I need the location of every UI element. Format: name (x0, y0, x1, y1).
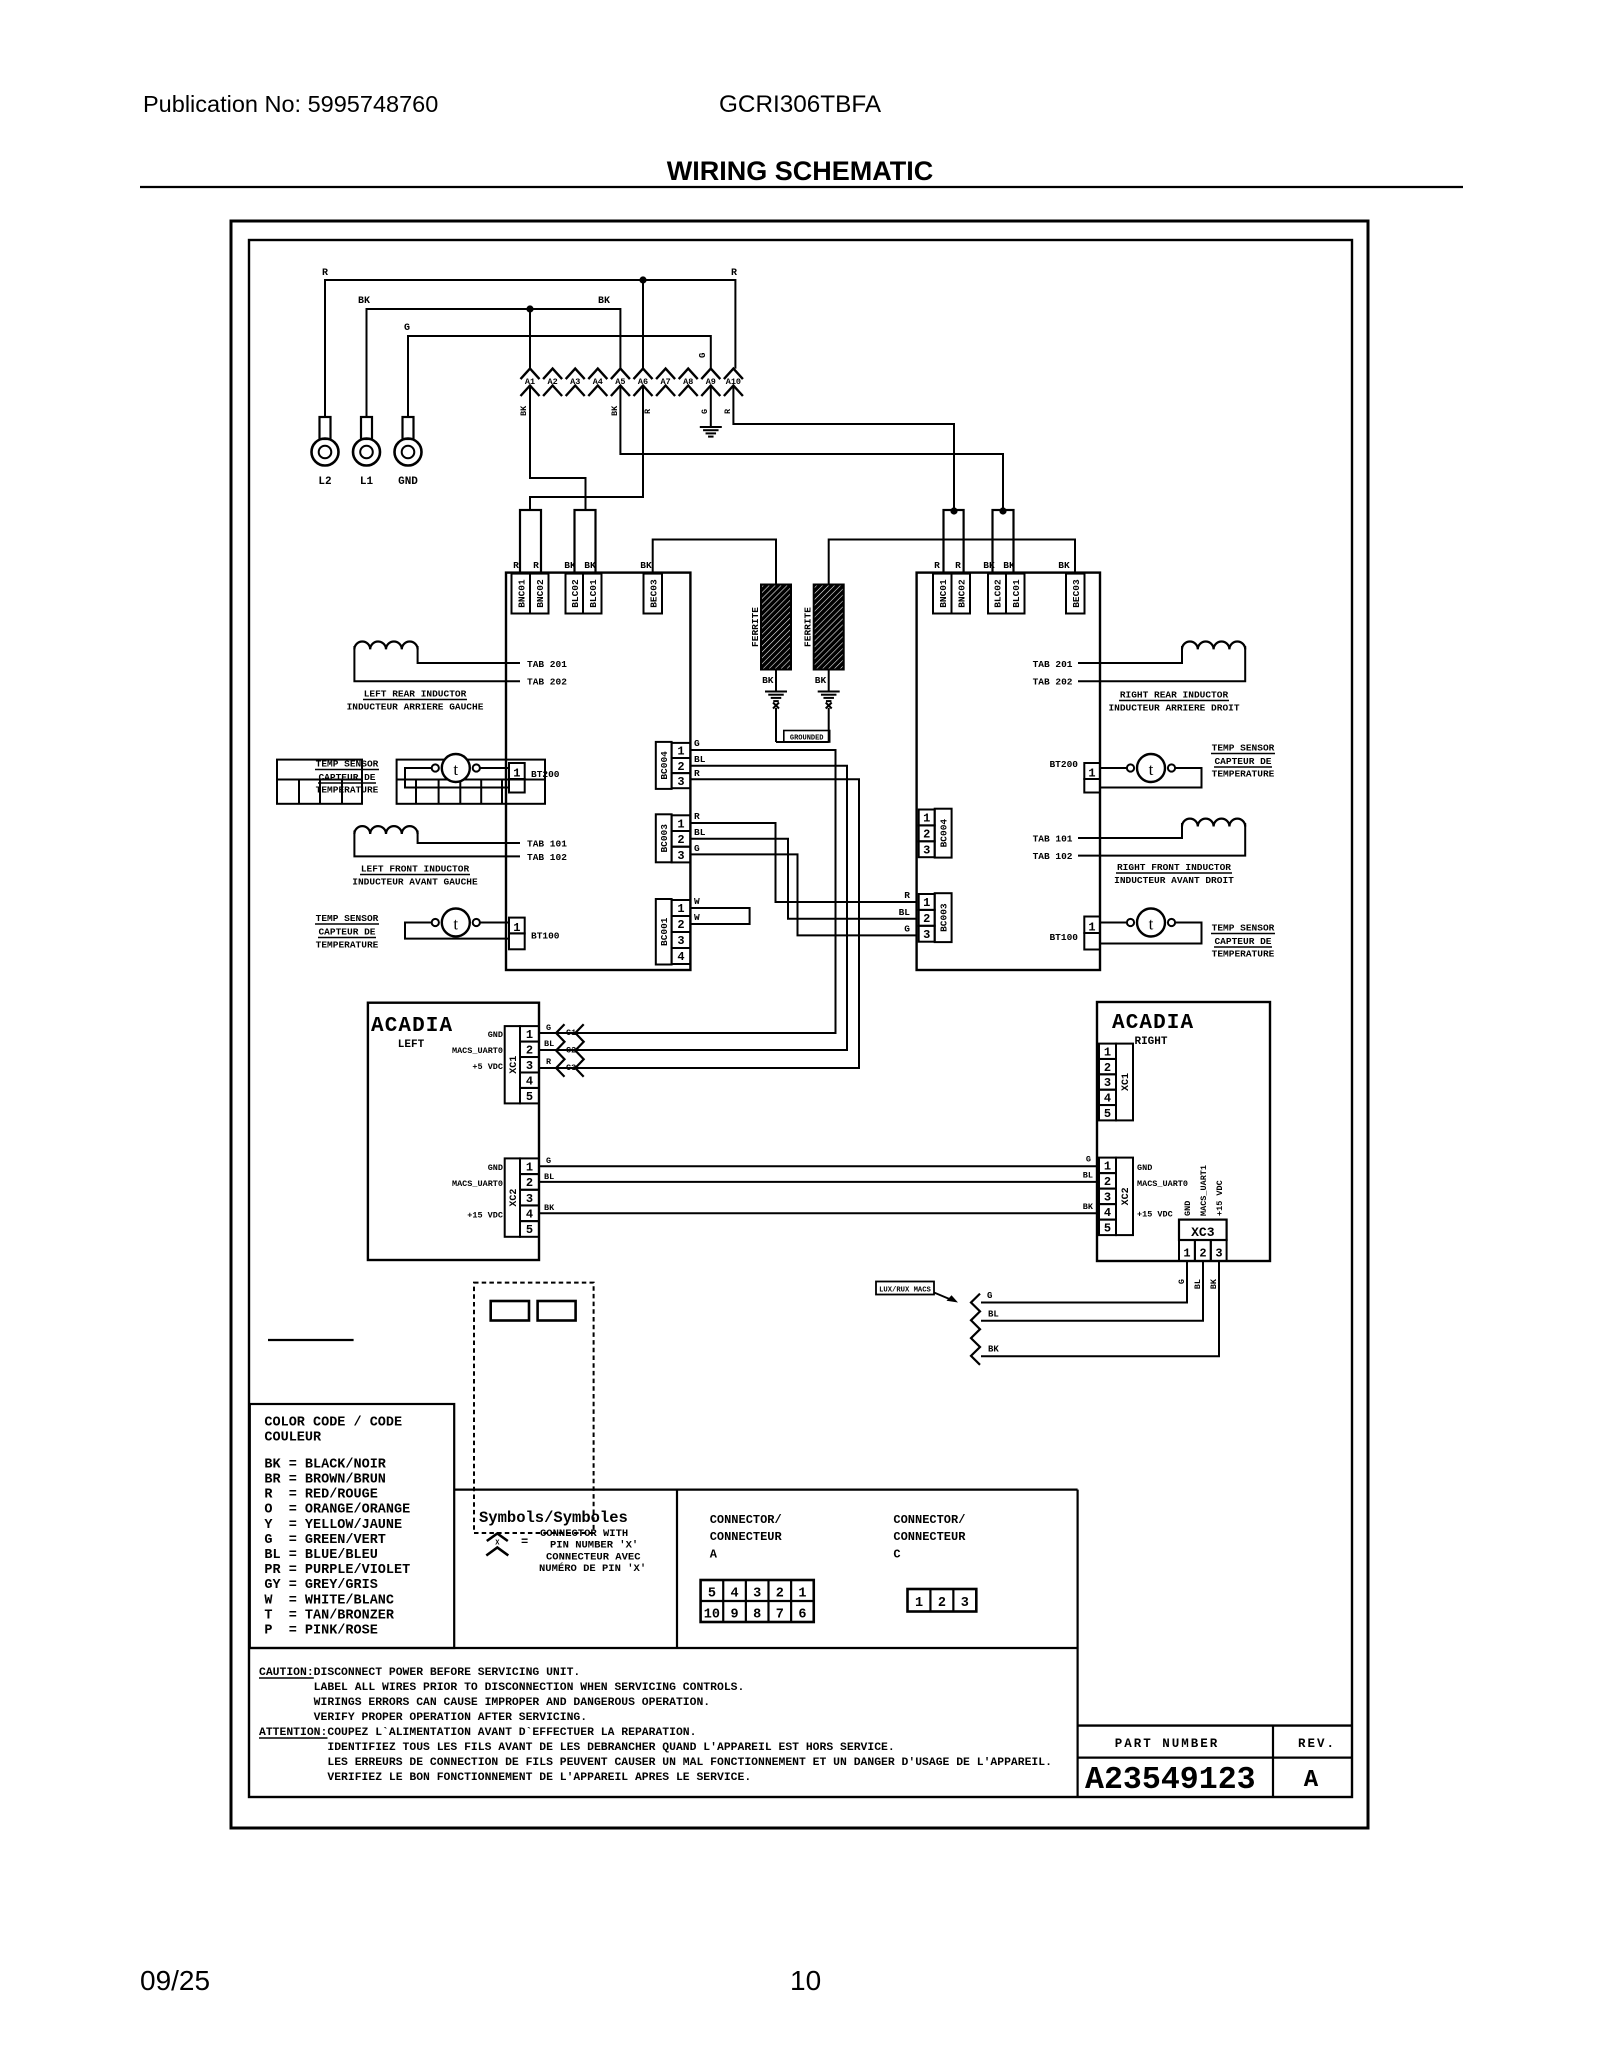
svg-text:3: 3 (923, 843, 930, 857)
svg-text:3: 3 (677, 849, 684, 863)
connector A2 (543, 369, 562, 380)
connector BLC02 (right box) (988, 574, 1006, 614)
ferrite 1 bead (761, 585, 791, 670)
connector pin box BT200 (right) (1084, 763, 1100, 779)
svg-text:+15 VDC: +15 VDC (467, 1211, 503, 1221)
svg-text:=: = (521, 1535, 528, 1549)
svg-text:BC004: BC004 (939, 819, 950, 848)
svg-text:LEFT: LEFT (398, 1039, 425, 1051)
svg-text:TAB 202: TAB 202 (527, 677, 567, 688)
svg-text:TEMPERATURE: TEMPERATURE (1212, 769, 1275, 780)
connector BNC02 (right box) (952, 574, 971, 614)
svg-text:2: 2 (677, 918, 684, 932)
svg-text:TAB 101: TAB 101 (1033, 834, 1073, 845)
svg-text:4: 4 (1104, 1206, 1111, 1220)
wire BK XC3-3 to LUX chevron (981, 1261, 1219, 1356)
svg-text:4: 4 (730, 1587, 738, 1602)
svg-text:TAB 201: TAB 201 (1033, 659, 1073, 670)
ground wire below A9 (710, 386, 712, 427)
wire BK from BEC03 to ferrite 1 (653, 540, 776, 585)
svg-text:BL: BL (694, 754, 706, 765)
svg-text:R: R (955, 560, 961, 571)
connector A pin grid (701, 1580, 814, 1622)
LUX/RUX MACS arrow (934, 1293, 953, 1301)
connector pin box BT100 (left) (509, 918, 525, 934)
connector BC004 (right box) (919, 810, 935, 826)
ferrite 1 ground symbol (765, 691, 787, 693)
svg-text:GND: GND (1137, 1163, 1152, 1173)
svg-text:TEMP SENSOR: TEMP SENSOR (1212, 923, 1275, 934)
connector XC2 (ACADIA right) (1099, 1158, 1116, 1174)
svg-text:1: 1 (677, 902, 684, 916)
svg-text:GY = GREY/GRIS: GY = GREY/GRIS (264, 1578, 377, 1593)
temp sensor BT100 (left) (442, 909, 470, 937)
svg-text:BT200: BT200 (531, 769, 560, 780)
svg-text:MACS_UART0: MACS_UART0 (452, 1179, 503, 1189)
dashed outline box (474, 1283, 594, 1533)
svg-text:3: 3 (526, 1059, 533, 1073)
svg-text:1: 1 (1104, 1160, 1111, 1174)
ground symbol at A9 (700, 426, 722, 428)
svg-text:R: R (723, 408, 733, 414)
svg-text:4: 4 (677, 950, 684, 964)
svg-text:FERRITE: FERRITE (803, 607, 814, 647)
wire R below A10 to right box (733, 386, 954, 512)
terminal grid left of BT200 (277, 760, 362, 804)
wire BK XC2-4 to right XC2-4 (539, 1212, 1099, 1214)
svg-text:G = GREEN/VERT: G = GREEN/VERT (264, 1533, 386, 1548)
wire BL BC003-2 to right BC003-2 (690, 839, 916, 919)
svg-text:COLOR CODE / CODE: COLOR CODE / CODE (264, 1416, 402, 1431)
connector A3 (566, 369, 585, 380)
ferrite 1 break mark (773, 703, 779, 709)
wire TAB 202 (left rear) (354, 646, 520, 681)
svg-text:G: G (694, 843, 700, 854)
svg-text:INDUCTEUR AVANT DROIT: INDUCTEUR AVANT DROIT (1114, 875, 1234, 886)
left rear inductor coil (354, 642, 417, 650)
svg-text:10: 10 (704, 1608, 720, 1623)
svg-text:3: 3 (1104, 1076, 1111, 1090)
connector pin box BT200 (left) (509, 763, 525, 779)
svg-text:FERRITE: FERRITE (750, 607, 761, 647)
wire BK below A1 (530, 386, 586, 511)
stray underline segment left margin (268, 1339, 354, 1341)
svg-text:BK: BK (598, 296, 610, 307)
left front inductor coil (354, 826, 417, 834)
connector XC2 (ACADIA left) (505, 1158, 520, 1236)
svg-text:3: 3 (677, 934, 684, 948)
svg-text:VERIFY PROPER OPERATION AFTER: VERIFY PROPER OPERATION AFTER SERVICING. (259, 1712, 587, 1724)
grounded link wire (776, 741, 829, 743)
ACADIA LEFT module box (368, 1003, 539, 1260)
svg-text:REV.: REV. (1298, 1737, 1336, 1751)
svg-text:+15 VDC: +15 VDC (1137, 1210, 1173, 1220)
svg-text:BEC03: BEC03 (648, 579, 659, 608)
svg-text:+5 VDC: +5 VDC (472, 1062, 503, 1072)
svg-text:IDENTIFIEZ TOUS LES FILS AVANT: IDENTIFIEZ TOUS LES FILS AVANT DE LES DE… (259, 1742, 895, 1754)
svg-text:R: R (694, 811, 700, 822)
svg-text:A: A (1304, 1767, 1319, 1794)
connector BC003 (left box) (656, 814, 672, 862)
svg-text:RIGHT: RIGHT (1134, 1036, 1167, 1048)
wire G XC2-1 to right XC2-1 (539, 1165, 1099, 1167)
svg-text:PART NUMBER: PART NUMBER (1115, 1737, 1220, 1751)
svg-text:CONNECTOR/: CONNECTOR/ (710, 1513, 782, 1527)
LUX/RUX MACS label box (876, 1282, 934, 1295)
svg-text:2: 2 (526, 1043, 533, 1057)
wire BL BC004-2 to XC1-2 via C2 (539, 766, 847, 1050)
svg-text:1: 1 (677, 745, 684, 759)
svg-text:BL: BL (544, 1039, 554, 1049)
svg-text:BK: BK (610, 405, 620, 416)
svg-text:10: 10 (790, 1965, 821, 1996)
svg-text:R: R (322, 268, 328, 279)
svg-text:t: t (1149, 760, 1154, 779)
svg-text:2: 2 (1199, 1247, 1206, 1261)
svg-text:BNC02: BNC02 (535, 579, 546, 608)
svg-text:W = WHITE/BLANC: W = WHITE/BLANC (264, 1593, 394, 1608)
connector BC001 (left box) (656, 899, 672, 965)
wire BK branch A1 drop (529, 309, 531, 369)
svg-text:7: 7 (776, 1608, 784, 1623)
wire BT100 right pin to pin 1 (480, 922, 509, 924)
svg-text:BT100: BT100 (1049, 932, 1078, 943)
legend band borders (454, 1488, 1077, 1490)
wire TAB 201 (left rear) (418, 646, 520, 663)
svg-text:INDUCTEUR AVANT GAUCHE: INDUCTEUR AVANT GAUCHE (352, 877, 478, 888)
svg-text:CONNECTOR WITH: CONNECTOR WITH (540, 1528, 628, 1540)
svg-text:BK: BK (640, 560, 652, 571)
svg-text:BK: BK (983, 560, 995, 571)
svg-text:TAB 201: TAB 201 (527, 659, 567, 670)
wire G from GND to A9 (408, 336, 711, 417)
svg-text:TAB 101: TAB 101 (527, 839, 567, 850)
wire R from L2 to A10 (top red bus) (325, 280, 735, 417)
svg-text:INDUCTEUR ARRIERE GAUCHE: INDUCTEUR ARRIERE GAUCHE (347, 702, 484, 713)
svg-text:BNC01: BNC01 (938, 579, 949, 608)
ferrite 2 ground symbol (818, 691, 840, 693)
svg-text:TAB 202: TAB 202 (1033, 677, 1073, 688)
svg-text:CAPTEUR DE: CAPTEUR DE (1214, 936, 1271, 947)
ferrite 1 wire to ground (775, 670, 777, 692)
svg-text:BK: BK (762, 675, 774, 686)
svg-text:R: R (643, 408, 653, 414)
wire G BC003-3 to right BC003-3 (690, 854, 916, 935)
small rectangle 1 in dashed box (491, 1301, 529, 1321)
connector symbols C1 C2 C3 zigzag pair (556, 1024, 564, 1077)
svg-text:GND: GND (488, 1030, 503, 1040)
svg-text:3: 3 (923, 928, 930, 942)
connector XC1 (ACADIA right) (1099, 1044, 1116, 1059)
svg-text:BK: BK (584, 560, 596, 571)
terminal grid around BT200 (397, 760, 545, 804)
svg-text:XC1: XC1 (509, 1056, 520, 1074)
svg-text:LUX/RUX MACS: LUX/RUX MACS (879, 1287, 931, 1295)
wire TAB 102 (right front) (1078, 823, 1245, 856)
svg-text:BL: BL (694, 827, 706, 838)
svg-text:R: R (533, 560, 539, 571)
ferrite 2 wire to ground (828, 670, 830, 692)
temp sensor BT200 (left) (442, 754, 470, 782)
connector BNC01 (right box) (933, 574, 952, 614)
wire TAB 101 (right front) (1078, 823, 1182, 838)
svg-text:G: G (904, 924, 910, 935)
svg-text:CAPTEUR DE: CAPTEUR DE (318, 772, 375, 783)
svg-text:BC003: BC003 (939, 903, 950, 932)
label GROUNDED box (784, 731, 830, 743)
svg-text:CONNECTEUR AVEC: CONNECTEUR AVEC (546, 1551, 641, 1563)
connector A10 (724, 369, 743, 380)
svg-text:O = ORANGE/ORANGE: O = ORANGE/ORANGE (264, 1503, 410, 1518)
svg-text:TAB 102: TAB 102 (527, 852, 567, 863)
ring terminal GND (395, 439, 422, 466)
svg-text:G: G (698, 353, 708, 358)
svg-text:1: 1 (677, 817, 684, 831)
svg-text:BLC01: BLC01 (588, 579, 599, 608)
svg-text:R: R (934, 560, 940, 571)
svg-text:TEMP SENSOR: TEMP SENSOR (316, 759, 379, 770)
svg-text:CAPTEUR DE: CAPTEUR DE (318, 927, 375, 938)
connector A8 (679, 369, 698, 380)
svg-text:MACS_UART0: MACS_UART0 (1137, 1179, 1188, 1189)
svg-text:NUMÉRO DE PIN 'X': NUMÉRO DE PIN 'X' (539, 1561, 646, 1575)
svg-text:T = TAN/BRONZER: T = TAN/BRONZER (264, 1608, 395, 1623)
svg-text:C: C (893, 1548, 900, 1562)
wire BL XC3-2 to LUX chevron (981, 1261, 1203, 1321)
svg-text:BEC03: BEC03 (1071, 579, 1082, 608)
connector XC3 (ACADIA right) (1179, 1220, 1227, 1240)
svg-text:t: t (1149, 915, 1154, 934)
svg-text:R: R (513, 560, 519, 571)
connector BNC02 (left box) (530, 574, 549, 614)
svg-text:W: W (694, 912, 700, 923)
wire BT100 right pin loop to pin 2 (right) (1100, 923, 1202, 944)
svg-text:TEMP SENSOR: TEMP SENSOR (1212, 743, 1275, 754)
svg-text:CONNECTOR/: CONNECTOR/ (893, 1513, 965, 1527)
wire TAB 202 (right rear) (1078, 646, 1245, 681)
svg-text:XC1: XC1 (1121, 1073, 1132, 1091)
svg-text:BT200: BT200 (1049, 759, 1078, 770)
svg-text:3: 3 (1104, 1191, 1111, 1205)
svg-text:Y = YELLOW/JAUNE: Y = YELLOW/JAUNE (264, 1518, 402, 1533)
underline CAUTION (259, 1677, 314, 1679)
svg-text:6: 6 (798, 1608, 806, 1623)
wire TAB 102 (left front) (354, 831, 520, 857)
svg-text:2: 2 (923, 828, 930, 842)
tab shroud above BNC01/BNC02 (right) (944, 510, 964, 573)
connector XC1 (ACADIA left) (505, 1026, 520, 1103)
svg-text:XC3: XC3 (1191, 1225, 1215, 1240)
tab shroud above BLC02/BLC01 (right) (993, 510, 1014, 573)
svg-text:BL: BL (899, 907, 911, 918)
svg-text:XC2: XC2 (1121, 1187, 1132, 1205)
svg-text:R: R (731, 268, 737, 279)
svg-text:1: 1 (798, 1587, 806, 1602)
svg-text:BL: BL (988, 1310, 999, 1320)
svg-text:BK: BK (544, 1203, 555, 1213)
svg-text:R: R (546, 1057, 552, 1067)
connector BNC01 (left box) (512, 574, 531, 614)
connector C pin grid (908, 1589, 977, 1612)
svg-text:G: G (694, 738, 700, 749)
left induction control box (506, 573, 690, 970)
svg-text:BNC01: BNC01 (516, 579, 527, 608)
junction dot R bus at A6 (639, 276, 646, 283)
ACADIA RIGHT module box (1097, 1002, 1270, 1261)
svg-text:BK = BLACK/NOIR: BK = BLACK/NOIR (264, 1457, 386, 1472)
svg-text:G: G (546, 1156, 551, 1166)
svg-text:5: 5 (526, 1090, 533, 1104)
wire BT200 left pin loop to pin 2 (405, 768, 509, 788)
right front inductor coil (1182, 819, 1245, 827)
legend connector symbol (487, 1534, 508, 1542)
svg-text:1: 1 (915, 1596, 923, 1611)
svg-text:2: 2 (677, 833, 684, 847)
svg-text:WIRING SCHEMATIC: WIRING SCHEMATIC (667, 156, 933, 186)
svg-text:TEMP SENSOR: TEMP SENSOR (316, 913, 379, 924)
connector BEC03 (left box) (644, 574, 663, 614)
svg-text:BK: BK (988, 1345, 999, 1355)
svg-text:PIN NUMBER 'X': PIN NUMBER 'X' (550, 1540, 638, 1552)
wire BT100 left pin loop to pin 2 (405, 923, 509, 939)
tab shroud above BLC02/BLC01 (left) (575, 510, 596, 573)
svg-text:G: G (546, 1023, 551, 1033)
svg-text:G: G (987, 1291, 992, 1301)
svg-text:R: R (904, 890, 910, 901)
svg-text:09/25: 09/25 (140, 1965, 210, 1996)
wire R branch A6 drop (642, 280, 644, 369)
wire BT100 left pin to pin 1 (right) (1100, 922, 1127, 924)
svg-text:BC003: BC003 (659, 824, 670, 853)
ring terminal L2 (312, 439, 339, 466)
LUX/RUX MACS zigzag connector (971, 1294, 980, 1365)
svg-text:W: W (694, 896, 700, 907)
svg-text:3: 3 (677, 775, 684, 789)
svg-text:2: 2 (938, 1596, 946, 1611)
wire BT200 left pin to pin 1 (right) (1100, 767, 1127, 769)
wire G BC004-1 to XC1-1 via C1 (539, 750, 836, 1033)
svg-text:3: 3 (753, 1587, 761, 1602)
svg-text:RIGHT FRONT INDUCTOR: RIGHT FRONT INDUCTOR (1117, 862, 1231, 873)
connector BLC01 (left box) (583, 574, 602, 614)
svg-text:BK: BK (519, 405, 529, 416)
svg-text:3: 3 (526, 1192, 533, 1206)
svg-text:TAB 102: TAB 102 (1033, 851, 1073, 862)
svg-text:C3: C3 (566, 1063, 576, 1073)
svg-text:GROUNDED: GROUNDED (790, 735, 824, 743)
svg-text:BLC01: BLC01 (1011, 579, 1022, 608)
svg-text:4: 4 (526, 1207, 533, 1221)
svg-text:1: 1 (526, 1160, 533, 1174)
svg-text:BL: BL (1193, 1279, 1203, 1289)
svg-text:LABEL ALL WIRES PRIOR TO DISCO: LABEL ALL WIRES PRIOR TO DISCONNECTION W… (259, 1682, 744, 1694)
svg-text:GND: GND (398, 476, 418, 488)
svg-text:BK: BK (564, 560, 576, 571)
svg-text:5: 5 (1104, 1107, 1111, 1121)
ferrite 2 break mark (826, 703, 832, 709)
svg-text:3: 3 (1215, 1247, 1222, 1261)
part number table (1078, 1724, 1352, 1726)
svg-text:1: 1 (923, 896, 930, 910)
svg-text:1: 1 (1104, 1045, 1111, 1059)
connector A1 (521, 369, 540, 380)
svg-text:Symbols/Symboles: Symbols/Symboles (479, 1509, 628, 1527)
svg-text:GND: GND (488, 1163, 503, 1173)
ferrite 2 wire to grounded bus (828, 708, 830, 742)
jumper wire W between BC001 pins 1-2 (690, 908, 749, 924)
svg-text:BLC02: BLC02 (570, 579, 581, 608)
junction dot on right BK shroud (999, 507, 1006, 514)
svg-text:TEMPERATURE: TEMPERATURE (1212, 949, 1275, 960)
wire R BC003-1 to right BC003-1 (690, 823, 916, 902)
svg-text:BL: BL (1083, 1171, 1093, 1181)
svg-text:BL: BL (544, 1172, 554, 1182)
svg-text:2: 2 (1104, 1061, 1111, 1075)
wire TAB 101 (left front) (418, 831, 520, 844)
wire TAB 201 (right rear) (1078, 646, 1182, 663)
svg-text:2: 2 (526, 1176, 533, 1190)
inner border frame (249, 240, 1352, 1797)
wire BT200 right pin to pin 1 (480, 767, 509, 769)
tab shroud above BNC01/BNC02 (left) (520, 510, 541, 573)
junction dot BK bus at A1 (526, 305, 533, 312)
title underline (140, 186, 1463, 188)
connector BLC02 (left box) (566, 574, 584, 614)
connector A7 (656, 369, 675, 380)
svg-text:5: 5 (708, 1587, 716, 1602)
svg-text:+15 VDC: +15 VDC (1215, 1180, 1225, 1216)
svg-text:RIGHT REAR INDUCTOR: RIGHT REAR INDUCTOR (1120, 690, 1229, 701)
svg-text:1: 1 (1183, 1247, 1190, 1261)
temp sensor BT100 (right) (1137, 909, 1165, 937)
svg-text:GND: GND (1183, 1201, 1193, 1216)
svg-text:2: 2 (1104, 1175, 1111, 1189)
svg-text:1: 1 (526, 1028, 533, 1042)
svg-text:BK: BK (1058, 560, 1070, 571)
svg-text:2: 2 (776, 1587, 784, 1602)
svg-text:t: t (453, 760, 458, 779)
underline ATTENTION (259, 1737, 328, 1739)
right induction control box (917, 573, 1100, 970)
connector BC004 (left box) (656, 742, 672, 789)
svg-text:BK: BK (358, 296, 370, 307)
svg-text:A23549123: A23549123 (1085, 1763, 1256, 1798)
svg-text:BL = BLUE/BLEU: BL = BLUE/BLEU (264, 1548, 377, 1563)
svg-text:R = RED/ROUGE: R = RED/ROUGE (264, 1488, 377, 1503)
svg-text:ACADIA: ACADIA (1112, 1012, 1194, 1035)
svg-text:9: 9 (730, 1608, 738, 1623)
svg-text:TEMPERATURE: TEMPERATURE (316, 785, 379, 796)
svg-text:2: 2 (923, 912, 930, 926)
svg-text:BK: BK (1083, 1202, 1094, 1212)
svg-text:BK: BK (1209, 1278, 1219, 1289)
color code box (250, 1404, 454, 1648)
svg-text:BC001: BC001 (659, 917, 670, 946)
junction dot on right R shroud (950, 507, 957, 514)
svg-text:5: 5 (526, 1223, 533, 1237)
svg-text:BNC02: BNC02 (956, 579, 967, 608)
svg-text:R: R (694, 768, 700, 779)
svg-text:LES ERREURS DE CONNECTION DE F: LES ERREURS DE CONNECTION DE FILS PEUVEN… (259, 1757, 1052, 1769)
svg-text:MACS_UART0: MACS_UART0 (452, 1046, 503, 1056)
connector BEC03 (right box) (1066, 574, 1085, 614)
svg-text:BC004: BC004 (659, 751, 670, 780)
svg-text:G: G (1177, 1279, 1187, 1284)
svg-text:GCRI306TBFA: GCRI306TBFA (719, 91, 882, 118)
wire BT200 right pin loop to pin 2 (right) (1100, 768, 1202, 788)
svg-text:VERIFIEZ LE BON FONCTIONNEMENT: VERIFIEZ LE BON FONCTIONNEMENT DE L'APPA… (259, 1772, 751, 1784)
wire G XC3-1 to LUX chevron (981, 1261, 1187, 1303)
